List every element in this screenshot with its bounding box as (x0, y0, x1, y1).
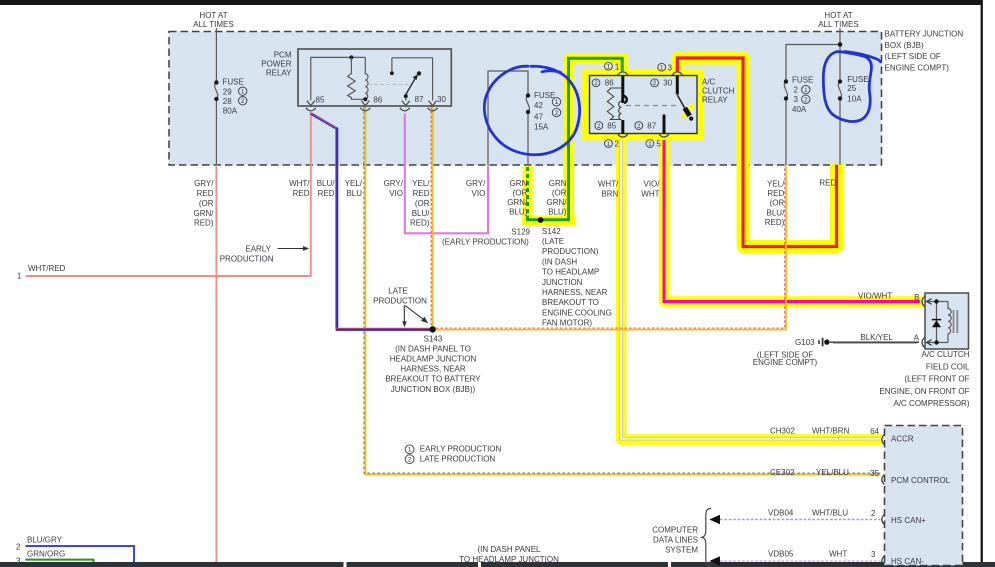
svg-text:HARNESS, NEAR: HARNESS, NEAR (542, 288, 608, 297)
A/C clutch relay connector arcs (618, 72, 683, 137)
svg-text:BATTERY JUNCTION: BATTERY JUNCTION (885, 30, 964, 39)
svg-text:EARLY PRODUCTION: EARLY PRODUCTION (420, 445, 502, 454)
wire WHT to HS CAN- (720, 560, 881, 562)
svg-text:87: 87 (415, 95, 424, 104)
svg-text:(LATE: (LATE (542, 237, 564, 246)
svg-text:VDB05: VDB05 (768, 549, 794, 558)
svg-text:DATA LINES: DATA LINES (653, 535, 698, 544)
PCM connector box (885, 426, 963, 567)
svg-text:1: 1 (615, 62, 620, 71)
splice S143 junction dot (429, 326, 435, 332)
svg-text:(IN DASH PANEL TO: (IN DASH PANEL TO (395, 345, 471, 354)
svg-text:HS CAN+: HS CAN+ (891, 516, 926, 525)
field coil pin A connector arc (922, 338, 924, 348)
wire BLK/YEL from G103 to coil pin A (830, 341, 919, 343)
svg-text:BREAKOUT TO BATTERY: BREAKOUT TO BATTERY (385, 375, 481, 384)
svg-text:ALL TIMES: ALL TIMES (818, 20, 858, 29)
svg-text:(LEFT FRONT OF: (LEFT FRONT OF (904, 375, 969, 384)
svg-text:JUNCTION: JUNCTION (542, 278, 583, 287)
svg-text:2: 2 (794, 86, 799, 95)
svg-text:BLU/: BLU/ (767, 209, 786, 218)
svg-text:(OR: (OR (415, 199, 430, 208)
svg-text:3: 3 (668, 63, 673, 72)
svg-text:FUSE: FUSE (847, 75, 868, 84)
svg-text:86: 86 (373, 96, 382, 105)
wire WHT/BLU to HS CAN+ (720, 519, 881, 521)
wire hot feed right (786, 28, 840, 82)
svg-text:85: 85 (607, 122, 616, 131)
svg-text:S142: S142 (542, 227, 561, 236)
svg-text:RED: RED (318, 189, 335, 198)
yellow highlighter on WHT/BRN wire path (621, 137, 881, 440)
svg-text:29: 29 (223, 88, 232, 97)
svg-text:HOT AT: HOT AT (199, 11, 227, 20)
svg-text:LATE: LATE (388, 286, 407, 295)
wire YEL/BLU from relay pin 86 to PCM CONTROL (365, 107, 880, 475)
svg-text:YEL/: YEL/ (345, 179, 363, 188)
svg-text:(OR: (OR (770, 199, 785, 208)
svg-text:BREAKOUT TO: BREAKOUT TO (542, 298, 599, 307)
svg-text:BRN: BRN (601, 190, 618, 199)
arrow for EARLY PRODUCTION note (278, 246, 310, 251)
svg-text:2: 2 (594, 80, 598, 87)
PCM power relay switch branch (368, 58, 433, 101)
svg-text:YEL/BLU: YEL/BLU (816, 468, 849, 477)
yellow highlighter on A/C clutch relay box (585, 72, 701, 137)
svg-text:BLU/GRY: BLU/GRY (27, 535, 63, 544)
wire GRY/RED (OR GRN/RED) from fuse 29/28 (215, 165, 217, 562)
svg-text:RED): RED) (194, 219, 214, 228)
svg-text:RELAY: RELAY (266, 69, 292, 78)
wire GRY/VIO from relay pin 87 to fuse 42/47 (405, 114, 488, 234)
svg-text:BLU: BLU (346, 189, 362, 198)
A/C clutch relay switch and dashed link (626, 95, 694, 121)
svg-text:(EARLY PRODUCTION): (EARLY PRODUCTION) (442, 238, 529, 247)
svg-text:POWER: POWER (261, 60, 291, 69)
svg-text:(IN DASH: (IN DASH (542, 257, 577, 266)
svg-text:ALL TIMES: ALL TIMES (193, 20, 233, 29)
svg-text:25: 25 (847, 84, 856, 93)
blue pen circle around fuse 25 (823, 52, 871, 122)
A/C clutch relay pin 85 bar (621, 120, 624, 134)
A/C clutch relay pin 87 bar (663, 115, 666, 134)
wire VIO/WHT from A/C relay pin 5 to field coil pin B (664, 140, 920, 302)
svg-text:28: 28 (223, 97, 232, 106)
svg-text:VIO/WHT: VIO/WHT (858, 291, 892, 300)
svg-text:WHT/: WHT/ (289, 179, 310, 188)
yellow highlighter on GRN S129 dashed wire (523, 166, 533, 220)
PCM power relay coil branch (311, 55, 368, 101)
svg-text:PCM CONTROL: PCM CONTROL (891, 476, 951, 485)
svg-text:(OR: (OR (552, 189, 567, 198)
svg-text:GRN/: GRN/ (547, 198, 568, 207)
svg-text:(IN DASH PANEL: (IN DASH PANEL (478, 545, 542, 554)
blue pen circle around fuse 42/47 (484, 66, 579, 154)
svg-text:GRY/: GRY/ (466, 179, 486, 188)
svg-text:VIO/: VIO/ (643, 180, 660, 189)
A/C clutch relay inner box (590, 76, 698, 134)
svg-text:1: 1 (607, 64, 611, 71)
svg-text:85: 85 (316, 96, 325, 105)
svg-text:2: 2 (408, 457, 412, 464)
svg-text:A/C CLUTCH: A/C CLUTCH (921, 350, 969, 359)
svg-text:GRN: GRN (510, 179, 528, 188)
svg-text:(LEFT SIDE OF: (LEFT SIDE OF (885, 52, 941, 61)
svg-text:PRODUCTION: PRODUCTION (220, 255, 274, 264)
svg-text:2: 2 (637, 123, 641, 130)
svg-text:80A: 80A (223, 106, 238, 115)
svg-text:3: 3 (794, 95, 799, 104)
A/C clutch field coil box (925, 293, 969, 349)
legend early/late production (405, 445, 414, 454)
A/C clutch relay coil (607, 88, 627, 120)
svg-text:FUSE: FUSE (792, 76, 813, 85)
svg-text:TO HEADLAMP: TO HEADLAMP (542, 268, 599, 277)
svg-text:HS CAN-: HS CAN- (891, 557, 924, 566)
svg-text:GRY/: GRY/ (384, 179, 404, 188)
wire WHT/BRN from A/C relay pin 2 to PCM ACCR (621, 140, 881, 439)
svg-text:3: 3 (871, 550, 876, 559)
svg-text:JUNCTION BOX (BJB)): JUNCTION BOX (BJB)) (391, 385, 476, 394)
PCM power relay pin arrows and connector arcs (306, 101, 438, 111)
svg-text:1: 1 (408, 447, 412, 454)
svg-text:BOX (BJB): BOX (BJB) (885, 41, 924, 50)
wire GRN/ORG circuit 3 (26, 560, 94, 562)
svg-text:WHT/BLU: WHT/BLU (812, 508, 848, 517)
wire BLU/RED from relay pin 85 to S143 (311, 114, 430, 330)
PCM power relay box (298, 49, 451, 106)
yellow highlighter on VIO/WHT wire path (664, 137, 923, 302)
svg-text:1: 1 (17, 271, 22, 280)
svg-text:2: 2 (555, 110, 559, 117)
wire hot feed left to fuse 29/28 (215, 28, 217, 165)
svg-text:BLK/YEL: BLK/YEL (860, 333, 893, 342)
PCM pin HS CAN+ connector arc (882, 515, 884, 525)
svg-text:42: 42 (534, 101, 543, 110)
svg-text:RED: RED (293, 189, 310, 198)
wire RED from fuse 25 to A/C relay pin 3 (677, 58, 836, 247)
svg-text:1: 1 (660, 65, 664, 72)
svg-text:HARNESS, NEAR: HARNESS, NEAR (400, 365, 466, 374)
svg-text:CE302: CE302 (770, 468, 795, 477)
svg-text:(OR: (OR (199, 199, 214, 208)
svg-text:FUSE: FUSE (534, 91, 555, 100)
svg-text:TO HEADLAMP JUNCTION: TO HEADLAMP JUNCTION (459, 555, 559, 564)
svg-text:1: 1 (804, 87, 808, 94)
svg-text:RED: RED (197, 189, 214, 198)
arrows for LATE PRODUCTION note (402, 305, 428, 327)
svg-text:WHT/RED: WHT/RED (28, 264, 66, 273)
fuse 25 10A element (838, 82, 841, 166)
fuse 42/47 15A element (526, 96, 529, 113)
svg-text:SYSTEM: SYSTEM (665, 546, 698, 555)
svg-text:ACCR: ACCR (891, 434, 914, 443)
PCM pin ACCR connector arc (882, 435, 884, 445)
svg-text:40A: 40A (792, 105, 807, 114)
svg-text:HEADLAMP JUNCTION: HEADLAMP JUNCTION (390, 355, 477, 364)
svg-text:CLUTCH: CLUTCH (702, 86, 735, 95)
A/C clutch relay pin 30 bar (676, 76, 679, 95)
svg-text:BLU/: BLU/ (412, 209, 431, 218)
splice S129/S142 junction dot (538, 217, 544, 223)
svg-text:WHT/BRN: WHT/BRN (812, 426, 850, 435)
svg-text:15A: 15A (534, 123, 549, 132)
svg-text:5: 5 (656, 140, 661, 149)
svg-text:VIO: VIO (472, 189, 486, 198)
svg-text:BLU): BLU) (509, 207, 528, 216)
svg-text:BLU/: BLU/ (317, 179, 336, 188)
yellow highlighter on GRN S142 wire path (616, 53, 627, 74)
svg-text:GRN/: GRN/ (194, 209, 215, 218)
wire WHT/RED circuit 1 from relay pin 85 (26, 114, 311, 277)
svg-text:FAN MOTOR): FAN MOTOR) (542, 319, 592, 328)
svg-text:2: 2 (16, 542, 21, 551)
svg-text:A/C: A/C (702, 77, 716, 86)
svg-text:A: A (914, 333, 920, 342)
A/C clutch field coil internals (925, 299, 957, 346)
svg-text:RED: RED (819, 178, 836, 187)
svg-text:1: 1 (555, 99, 559, 106)
svg-text:RED: RED (413, 189, 430, 198)
battery junction box (BJB) (169, 32, 882, 166)
svg-text:47: 47 (534, 112, 543, 121)
svg-text:GRN/: GRN/ (507, 198, 528, 207)
wire BLU/GRY circuit 2 (26, 546, 135, 562)
field coil pin B connector arc (922, 297, 924, 307)
svg-text:RED): RED) (410, 219, 430, 228)
svg-text:YEL/: YEL/ (412, 179, 430, 188)
svg-text:RED): RED) (765, 218, 785, 227)
svg-text:64: 64 (870, 427, 879, 436)
PCM pin HS CAN- connector arc (882, 556, 884, 566)
svg-text:1: 1 (607, 141, 611, 148)
computer data lines brace (702, 509, 711, 567)
svg-text:CH302: CH302 (770, 426, 795, 435)
svg-text:ENGINE COOLING: ENGINE COOLING (542, 308, 612, 317)
svg-text:VDB04: VDB04 (768, 508, 794, 517)
svg-text:30: 30 (663, 79, 672, 88)
wire GRN S142 solid to A/C relay pin 1 (542, 58, 623, 220)
svg-text:VIO: VIO (389, 189, 403, 198)
svg-text:1: 1 (241, 89, 245, 96)
svg-text:GRY/: GRY/ (194, 179, 214, 188)
svg-text:86: 86 (605, 79, 614, 88)
svg-text:FUSE: FUSE (223, 78, 244, 87)
svg-text:PRODUCTION: PRODUCTION (373, 296, 427, 305)
svg-text:2: 2 (804, 97, 808, 104)
svg-text:10A: 10A (847, 94, 862, 103)
svg-text:ENGINE COMPT): ENGINE COMPT) (885, 64, 950, 73)
svg-text:35: 35 (870, 469, 879, 478)
svg-text:HOT AT: HOT AT (824, 11, 852, 20)
svg-text:FIELD COIL: FIELD COIL (926, 362, 970, 371)
ground G103 (819, 338, 830, 347)
svg-text:EARLY: EARLY (245, 244, 271, 253)
fuse 29/28 80A element (215, 83, 218, 100)
svg-text:GRN/ORG: GRN/ORG (27, 549, 65, 558)
svg-text:ENGINE, ON FRONT OF: ENGINE, ON FRONT OF (879, 387, 969, 396)
fuse 2/3 40A element (784, 82, 787, 166)
wire GRN S129 dashed from fuse 42/47 (526, 167, 529, 215)
svg-text:A/C COMPRESSOR): A/C COMPRESSOR) (893, 399, 969, 408)
A/C relay pin labels (605, 62, 613, 70)
svg-text:PRODUCTION): PRODUCTION) (542, 247, 599, 256)
svg-text:2: 2 (615, 140, 620, 149)
svg-text:2: 2 (241, 98, 245, 105)
svg-text:1: 1 (648, 141, 652, 148)
A/C clutch relay pin 86 bar (621, 76, 624, 104)
svg-text:S143: S143 (424, 334, 443, 343)
yellow highlighter on RED wire path (677, 58, 836, 247)
svg-text:WHT/: WHT/ (598, 180, 619, 189)
svg-text:BLU): BLU) (548, 207, 567, 216)
svg-text:B: B (914, 293, 919, 302)
node at hot feed branch (838, 42, 843, 47)
svg-text:87: 87 (647, 122, 656, 131)
svg-text:3: 3 (16, 556, 21, 565)
svg-text:2: 2 (597, 123, 601, 130)
wire from GRY/VIO riser to fuse 42/47 (488, 71, 528, 165)
svg-text:COMPUTER: COMPUTER (652, 525, 698, 534)
svg-text:2: 2 (653, 80, 657, 87)
svg-text:30: 30 (437, 95, 446, 104)
PCM pin PCM CONTROL connector arc (882, 475, 884, 485)
svg-text:WHT: WHT (829, 549, 847, 558)
svg-text:(OR: (OR (513, 189, 528, 198)
svg-text:G103: G103 (795, 338, 815, 347)
wire YEL/RED from S143 to fuse 2/3 (436, 166, 786, 330)
svg-text:WHT: WHT (641, 190, 659, 199)
svg-text:GRN: GRN (549, 179, 567, 188)
svg-text:YEL/: YEL/ (767, 180, 785, 189)
svg-text:S129: S129 (511, 227, 530, 236)
wire YEL/RED from relay pin 30 to S143 (432, 107, 434, 327)
svg-text:ENGINE COMPT): ENGINE COMPT) (753, 358, 818, 367)
svg-text:PCM: PCM (274, 51, 292, 60)
svg-text:2: 2 (871, 509, 876, 518)
svg-text:RELAY: RELAY (702, 96, 728, 105)
svg-text:RED: RED (767, 189, 784, 198)
svg-text:LATE PRODUCTION: LATE PRODUCTION (420, 455, 496, 464)
